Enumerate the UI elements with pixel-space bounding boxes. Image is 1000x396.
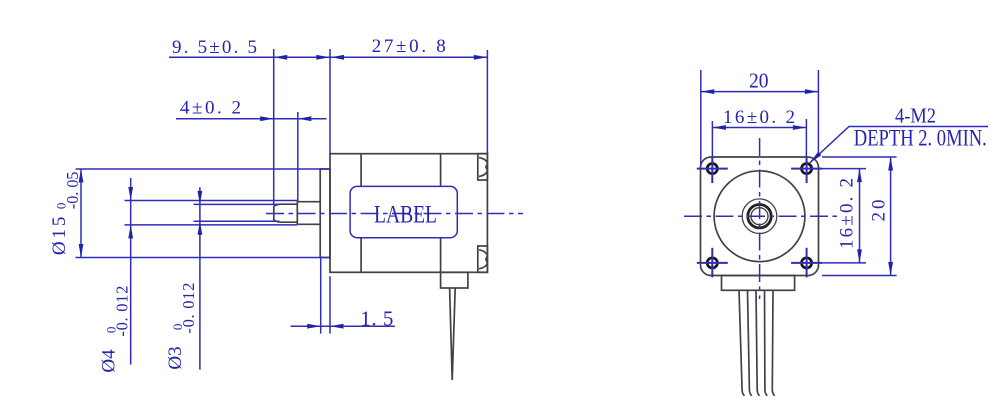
svg-text:9. 5±0. 5: 9. 5±0. 5 (172, 37, 257, 58)
svg-text:4±0. 2: 4±0. 2 (180, 98, 241, 119)
svg-text:20: 20 (749, 69, 769, 93)
svg-text:4-M2: 4-M2 (895, 104, 936, 128)
svg-text:-0. 012: -0. 012 (179, 283, 198, 334)
svg-text:1. 5: 1. 5 (360, 306, 393, 330)
svg-text:27±0. 8: 27±0. 8 (372, 36, 446, 57)
svg-text:-0. 012: -0. 012 (113, 286, 132, 337)
svg-text:LABEL: LABEL (374, 201, 437, 228)
svg-text:-0. 05: -0. 05 (63, 172, 82, 210)
svg-text:Ø3: Ø3 (165, 346, 186, 369)
svg-text:16±0. 2: 16±0. 2 (723, 107, 795, 128)
svg-text:16±0. 2: 16±0. 2 (836, 178, 857, 249)
svg-text:DEPTH 2. 0MIN.: DEPTH 2. 0MIN. (854, 126, 987, 151)
svg-text:Ø15: Ø15 (49, 217, 70, 256)
svg-text:Ø4: Ø4 (99, 349, 120, 373)
svg-text:20: 20 (869, 200, 890, 222)
